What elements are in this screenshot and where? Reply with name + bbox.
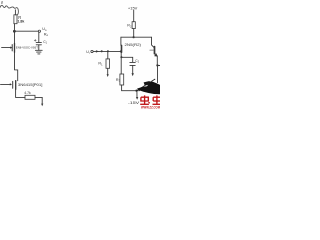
node Uo terminal [38,30,40,32]
input signal arrowhead [96,50,99,52]
wire [133,29,135,37]
svg-text:EN8-VSOC-VS6T: EN8-VSOC-VS6T [16,45,38,49]
wire [156,56,158,65]
svg-text:WWW.ZZ.COM: WWW.ZZ.COM [141,106,160,110]
svg-text:2N5(R2): 2N5(R2) [125,42,142,47]
negative supply arrow R1 [107,74,109,77]
wire [120,52,122,74]
node rail junction [133,36,135,38]
watermark logo body [137,82,160,95]
capacitor C1 plate top [36,42,41,44]
transistor V1 gate lead [2,47,11,49]
svg-text:C1: C1 [43,40,47,45]
capacitor C1 plate bottom [36,44,41,46]
transistor V1 gate bar [11,45,13,51]
capacitor C2 plate top [130,61,136,63]
node gate junction dot [120,50,122,52]
transistor V4 base stub [150,49,154,51]
negative supply arrow C2 [132,73,134,76]
node junction dot A [101,50,103,52]
wire [157,66,159,83]
transistor V2 gate lead [1,83,11,85]
wire [13,24,15,32]
wire branch [121,57,132,62]
transistor V1 channel bar [14,43,16,52]
node branch dot [120,56,122,58]
wire [14,31,16,43]
resistor R1 [106,59,110,68]
node Ui terminal [91,50,93,52]
wire [107,68,109,74]
transistor V4 emitter [154,53,157,56]
svg-text:C2: C2 [135,59,139,64]
wire [14,10,16,15]
wire [136,91,138,98]
wire output right [157,65,160,67]
svg-text:3N6415[P01]: 3N6415[P01] [18,82,43,87]
watermark logo flag [144,81,151,86]
transistor V4 collector wire [152,37,155,47]
wire input line [93,50,121,52]
resistor R1 lead [107,51,109,59]
resistor R3 [120,74,124,85]
wire [132,65,134,73]
wire [38,45,40,50]
negative supply arrow -15V [136,97,138,100]
node junction dot B [107,50,109,52]
node output junction [13,30,16,33]
capacitor C2 plate bottom [130,64,135,66]
capacitor C1 polarity plus [34,39,36,41]
watermark char chong 1 [140,95,150,104]
wire top rail [121,36,152,38]
capacitor C1 wire [38,32,40,42]
transistor V2 gate arrowhead [10,83,12,85]
wire [120,37,122,45]
svg-text:4.7k: 4.7k [24,91,31,95]
transistor V4 emitter arrowhead [154,53,158,56]
svg-text:-15V: -15V [128,100,140,105]
transistor V4 base bar [154,47,156,54]
ground [35,49,42,51]
resistor R 1.8k [14,15,17,24]
node bottom rail dot [135,89,137,91]
watermark logo pole [136,79,155,91]
node +V supply squiggle [0,5,18,15]
svg-text:+15V: +15V [128,5,138,10]
resistor 4.7k horizontal [25,95,35,99]
wire [35,97,42,104]
negative supply arrow [41,104,43,107]
transistor V2 gate bar [12,81,14,88]
wire +15V supply lead [133,10,135,21]
watermark char chong 2 [153,95,161,104]
transistor V2 channel bar [15,81,17,90]
node emitter junction [156,64,158,66]
svg-text:R3: R3 [116,78,121,83]
svg-text:1.8k: 1.8k [18,20,25,24]
wire [15,52,18,80]
wire output line [14,30,38,32]
transistor V1 gate arrowhead [10,47,12,49]
transistor V3 channel bar [121,45,123,52]
resistor R2 [132,22,135,29]
wire [16,89,25,97]
wire bottom rail [122,85,140,91]
